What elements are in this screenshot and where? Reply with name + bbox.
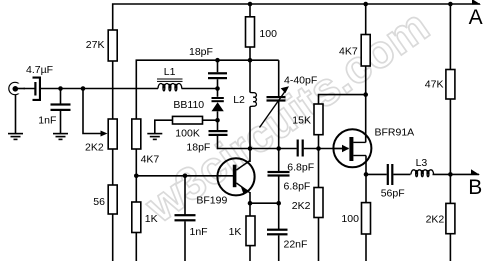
wire 15K top link to 4K7 right <box>319 95 366 104</box>
inductor L3 <box>411 170 434 177</box>
svg-text:4K7: 4K7 <box>141 154 160 166</box>
svg-text:27K: 27K <box>86 39 105 51</box>
wire 2K2 pot to 56 <box>112 149 114 185</box>
svg-text:15K: 15K <box>292 115 311 127</box>
varactor diode BB110 <box>212 97 224 111</box>
potentiometer wiper arrow 2K2 <box>101 131 108 137</box>
wire 56 to bottom edge <box>112 214 114 261</box>
svg-text:56: 56 <box>93 196 105 208</box>
capacitor C2 1nF <box>51 103 71 111</box>
svg-text:100: 100 <box>341 213 359 225</box>
wire 6.8pF C6 leads <box>278 149 280 172</box>
transistor Q1 BF199 <box>217 158 254 195</box>
node input-1nF <box>58 86 63 91</box>
wire BF199 emitter lead <box>249 192 251 203</box>
svg-text:100: 100 <box>259 28 277 40</box>
svg-text:100K: 100K <box>175 128 200 140</box>
wire BB110 leads <box>217 89 219 97</box>
svg-text:47K: 47K <box>425 79 444 91</box>
resistor 100 bottom <box>362 203 371 234</box>
node BB110-100K <box>215 118 220 123</box>
inductor L1 with core <box>157 79 183 91</box>
node emitter link-22nF <box>276 201 281 206</box>
node supply-100 <box>248 2 253 7</box>
wire 1nF C2 leads <box>60 89 62 104</box>
resistor 56 <box>108 185 117 214</box>
wire 18pF C3 leads <box>217 60 219 72</box>
node supply-4K7 <box>363 2 368 7</box>
wire connector ground stem <box>15 95 17 133</box>
node trimmer-6.8pF <box>276 146 281 151</box>
wire 1nF C7 leads <box>184 176 186 215</box>
capacitor C8 22nF <box>267 229 288 236</box>
resistor 27K <box>108 30 117 61</box>
trimmer capacitor 4-40pF <box>260 86 290 127</box>
svg-text:BFR91A: BFR91A <box>375 127 415 139</box>
capacitor C6 6.8pF shunt <box>268 171 290 177</box>
svg-text:L3: L3 <box>416 157 428 169</box>
svg-text:1K: 1K <box>145 213 158 225</box>
inductor L2 <box>250 93 256 107</box>
transistor Q2 BFR91A <box>333 129 371 167</box>
arrow output A <box>472 0 481 5</box>
svg-text:BB110: BB110 <box>173 99 204 111</box>
wire 100 bottom resistor leads <box>365 174 367 202</box>
wire 4K7 right leads <box>365 4 367 35</box>
wire emitter link <box>250 202 279 204</box>
node supply-47K / A <box>448 2 453 7</box>
wire 22nF leads <box>278 203 280 229</box>
svg-text:1K: 1K <box>229 226 242 238</box>
resistor 2K2 potentiometer body <box>108 119 117 149</box>
resistor 100K <box>173 116 203 124</box>
svg-text:B: B <box>468 176 482 199</box>
svg-text:2K2: 2K2 <box>426 214 445 226</box>
node BF199 emitter-1K <box>248 201 253 206</box>
wire 2K2 mid leads <box>318 149 320 188</box>
resistor 47K <box>446 70 455 100</box>
wire 100K right lead <box>203 119 218 121</box>
svg-text:L2: L2 <box>233 94 245 106</box>
svg-text:2K2: 2K2 <box>85 141 104 153</box>
svg-text:4-40pF: 4-40pF <box>284 75 317 87</box>
capacitor C1 4.7uF electrolytic <box>33 77 42 102</box>
resistor 100 top <box>246 17 255 47</box>
wire BF199 collector lead <box>249 149 251 163</box>
capacitor C4 18pF bottom <box>209 130 228 136</box>
svg-text:1nF: 1nF <box>190 226 208 238</box>
wire output line to B <box>366 173 387 175</box>
node output B <box>448 172 453 177</box>
capacitor C3 18pF top <box>208 72 227 79</box>
wire BFR91A collector vertical <box>365 95 367 143</box>
svg-text:A: A <box>469 6 483 29</box>
svg-text:4.7µF: 4.7µF <box>26 64 53 76</box>
wire trimmer bottom lead <box>278 102 280 149</box>
svg-text:2K2: 2K2 <box>292 200 311 212</box>
wire 100 top resistor leads <box>249 4 251 17</box>
wire BF199 base line <box>136 175 233 177</box>
svg-text:22nF: 22nF <box>284 239 308 251</box>
wire 15K bottom lead <box>318 135 320 149</box>
svg-text:BF199: BF199 <box>196 195 227 207</box>
node 4K7-15K link <box>363 92 368 97</box>
resistor 1K left <box>132 202 141 233</box>
node BF199 collector <box>248 146 253 151</box>
node input-L1-18pF <box>215 86 220 91</box>
node BFR91A base <box>316 146 321 151</box>
wire 100K left lead to ground <box>155 120 173 133</box>
input connector J1 <box>9 82 25 94</box>
wire supply rail to output A <box>113 4 480 61</box>
node BFR91A emitter <box>364 172 369 177</box>
wire BFR91A emitter vertical <box>365 156 367 175</box>
node base line-1nF <box>183 174 188 179</box>
wire L2 leads <box>249 60 251 92</box>
svg-text:56pF: 56pF <box>381 188 405 200</box>
svg-text:18pF: 18pF <box>186 142 210 154</box>
wire 18pF C4 leads <box>217 120 219 130</box>
resistor 4K7 right <box>361 35 370 67</box>
capacitor C7 1nF <box>175 214 196 221</box>
svg-text:L1: L1 <box>164 66 176 78</box>
node tank top-L2 <box>248 58 253 63</box>
node input-wiper <box>81 86 86 91</box>
resistor 15K <box>314 104 323 135</box>
arrow output B <box>471 169 480 175</box>
node base line-4K7 left <box>134 174 139 179</box>
ground input connector <box>8 133 23 140</box>
svg-text:1nF: 1nF <box>38 115 56 127</box>
svg-text:4K7: 4K7 <box>339 46 358 58</box>
ground 1nF C2 <box>53 133 68 140</box>
wire input line <box>18 88 35 90</box>
wire pot wiper <box>83 89 105 134</box>
svg-text:6.8pF: 6.8pF <box>284 180 311 192</box>
wire tank top line <box>136 60 278 119</box>
wire 47K leads <box>449 4 451 70</box>
resistor 1K right <box>246 216 255 246</box>
svg-text:18pF: 18pF <box>189 46 213 58</box>
svg-text:6.8pF: 6.8pF <box>287 161 314 173</box>
capacitor C9 56pF series <box>387 164 394 185</box>
resistor 2K2 mid <box>314 188 323 218</box>
wire oscillator node line <box>250 148 297 150</box>
wire 4K7 left to base node <box>135 149 137 202</box>
wire trimmer top lead <box>278 60 280 96</box>
wire 27K bottom to 2K2 pot top <box>112 61 114 119</box>
wire 2K2 right leads <box>449 174 451 203</box>
resistor 2K2 right <box>446 203 455 233</box>
node tank top-18pF <box>215 58 220 63</box>
ground 100K <box>147 133 162 140</box>
wire 1K left to bottom edge <box>135 233 137 261</box>
capacitor C5 6.8pF series <box>297 140 304 157</box>
wire 1K right leads <box>249 203 251 216</box>
resistor 4K7 left <box>132 119 141 149</box>
